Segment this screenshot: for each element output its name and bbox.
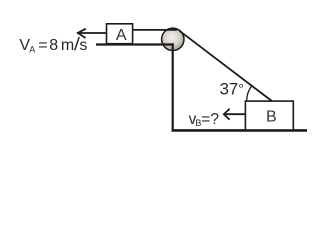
angle arc at 37 degrees [247, 86, 252, 101]
box A [107, 24, 133, 44]
floor line [172, 129, 307, 132]
svg-text:=?: =? [201, 111, 219, 128]
svg-text:s: s [79, 37, 87, 54]
svg-text:A: A [116, 27, 127, 44]
table surface (horizontal) [96, 43, 174, 45]
svg-text:=: = [38, 37, 47, 54]
pulley [162, 28, 184, 50]
velocity arrow for B [224, 109, 246, 120]
svg-text:37°: 37° [220, 80, 244, 99]
svg-text:m: m [61, 37, 74, 54]
velocity arrow for A [78, 29, 107, 38]
box B [245, 101, 293, 130]
rope from block A over pulley [133, 29, 177, 31]
svg-text:A: A [29, 45, 35, 55]
svg-text:B: B [266, 109, 277, 126]
table vertical edge [172, 43, 174, 131]
svg-text:8: 8 [49, 37, 58, 54]
rope from pulley to block B [179, 31, 271, 101]
